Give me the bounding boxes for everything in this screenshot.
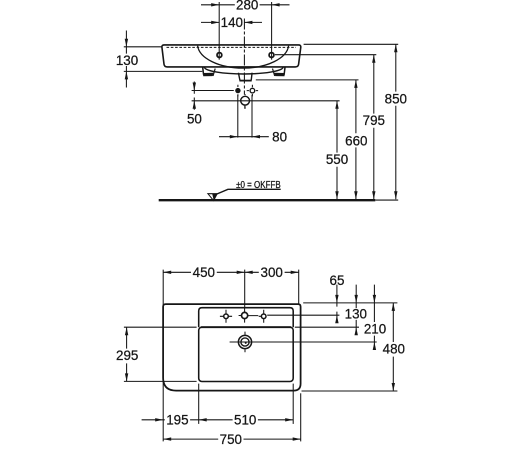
svg-text:50: 50 (187, 112, 202, 127)
svg-text:795: 795 (363, 113, 385, 128)
svg-text:750: 750 (220, 432, 242, 447)
svg-text:140: 140 (221, 15, 243, 30)
svg-text:510: 510 (234, 412, 256, 427)
svg-text:300: 300 (261, 265, 283, 280)
svg-text:660: 660 (345, 134, 367, 149)
svg-text:80: 80 (272, 129, 287, 144)
svg-text:280: 280 (236, 0, 258, 13)
svg-text:±0 = OKFFB: ±0 = OKFFB (236, 180, 281, 191)
svg-text:130: 130 (345, 306, 367, 321)
svg-text:550: 550 (326, 152, 348, 167)
svg-text:210: 210 (364, 321, 386, 336)
svg-text:480: 480 (383, 342, 405, 357)
svg-text:130: 130 (116, 53, 138, 68)
svg-text:450: 450 (193, 265, 215, 280)
svg-text:195: 195 (166, 412, 188, 427)
svg-text:65: 65 (330, 273, 345, 288)
svg-text:850: 850 (385, 91, 407, 106)
svg-text:295: 295 (116, 348, 138, 363)
